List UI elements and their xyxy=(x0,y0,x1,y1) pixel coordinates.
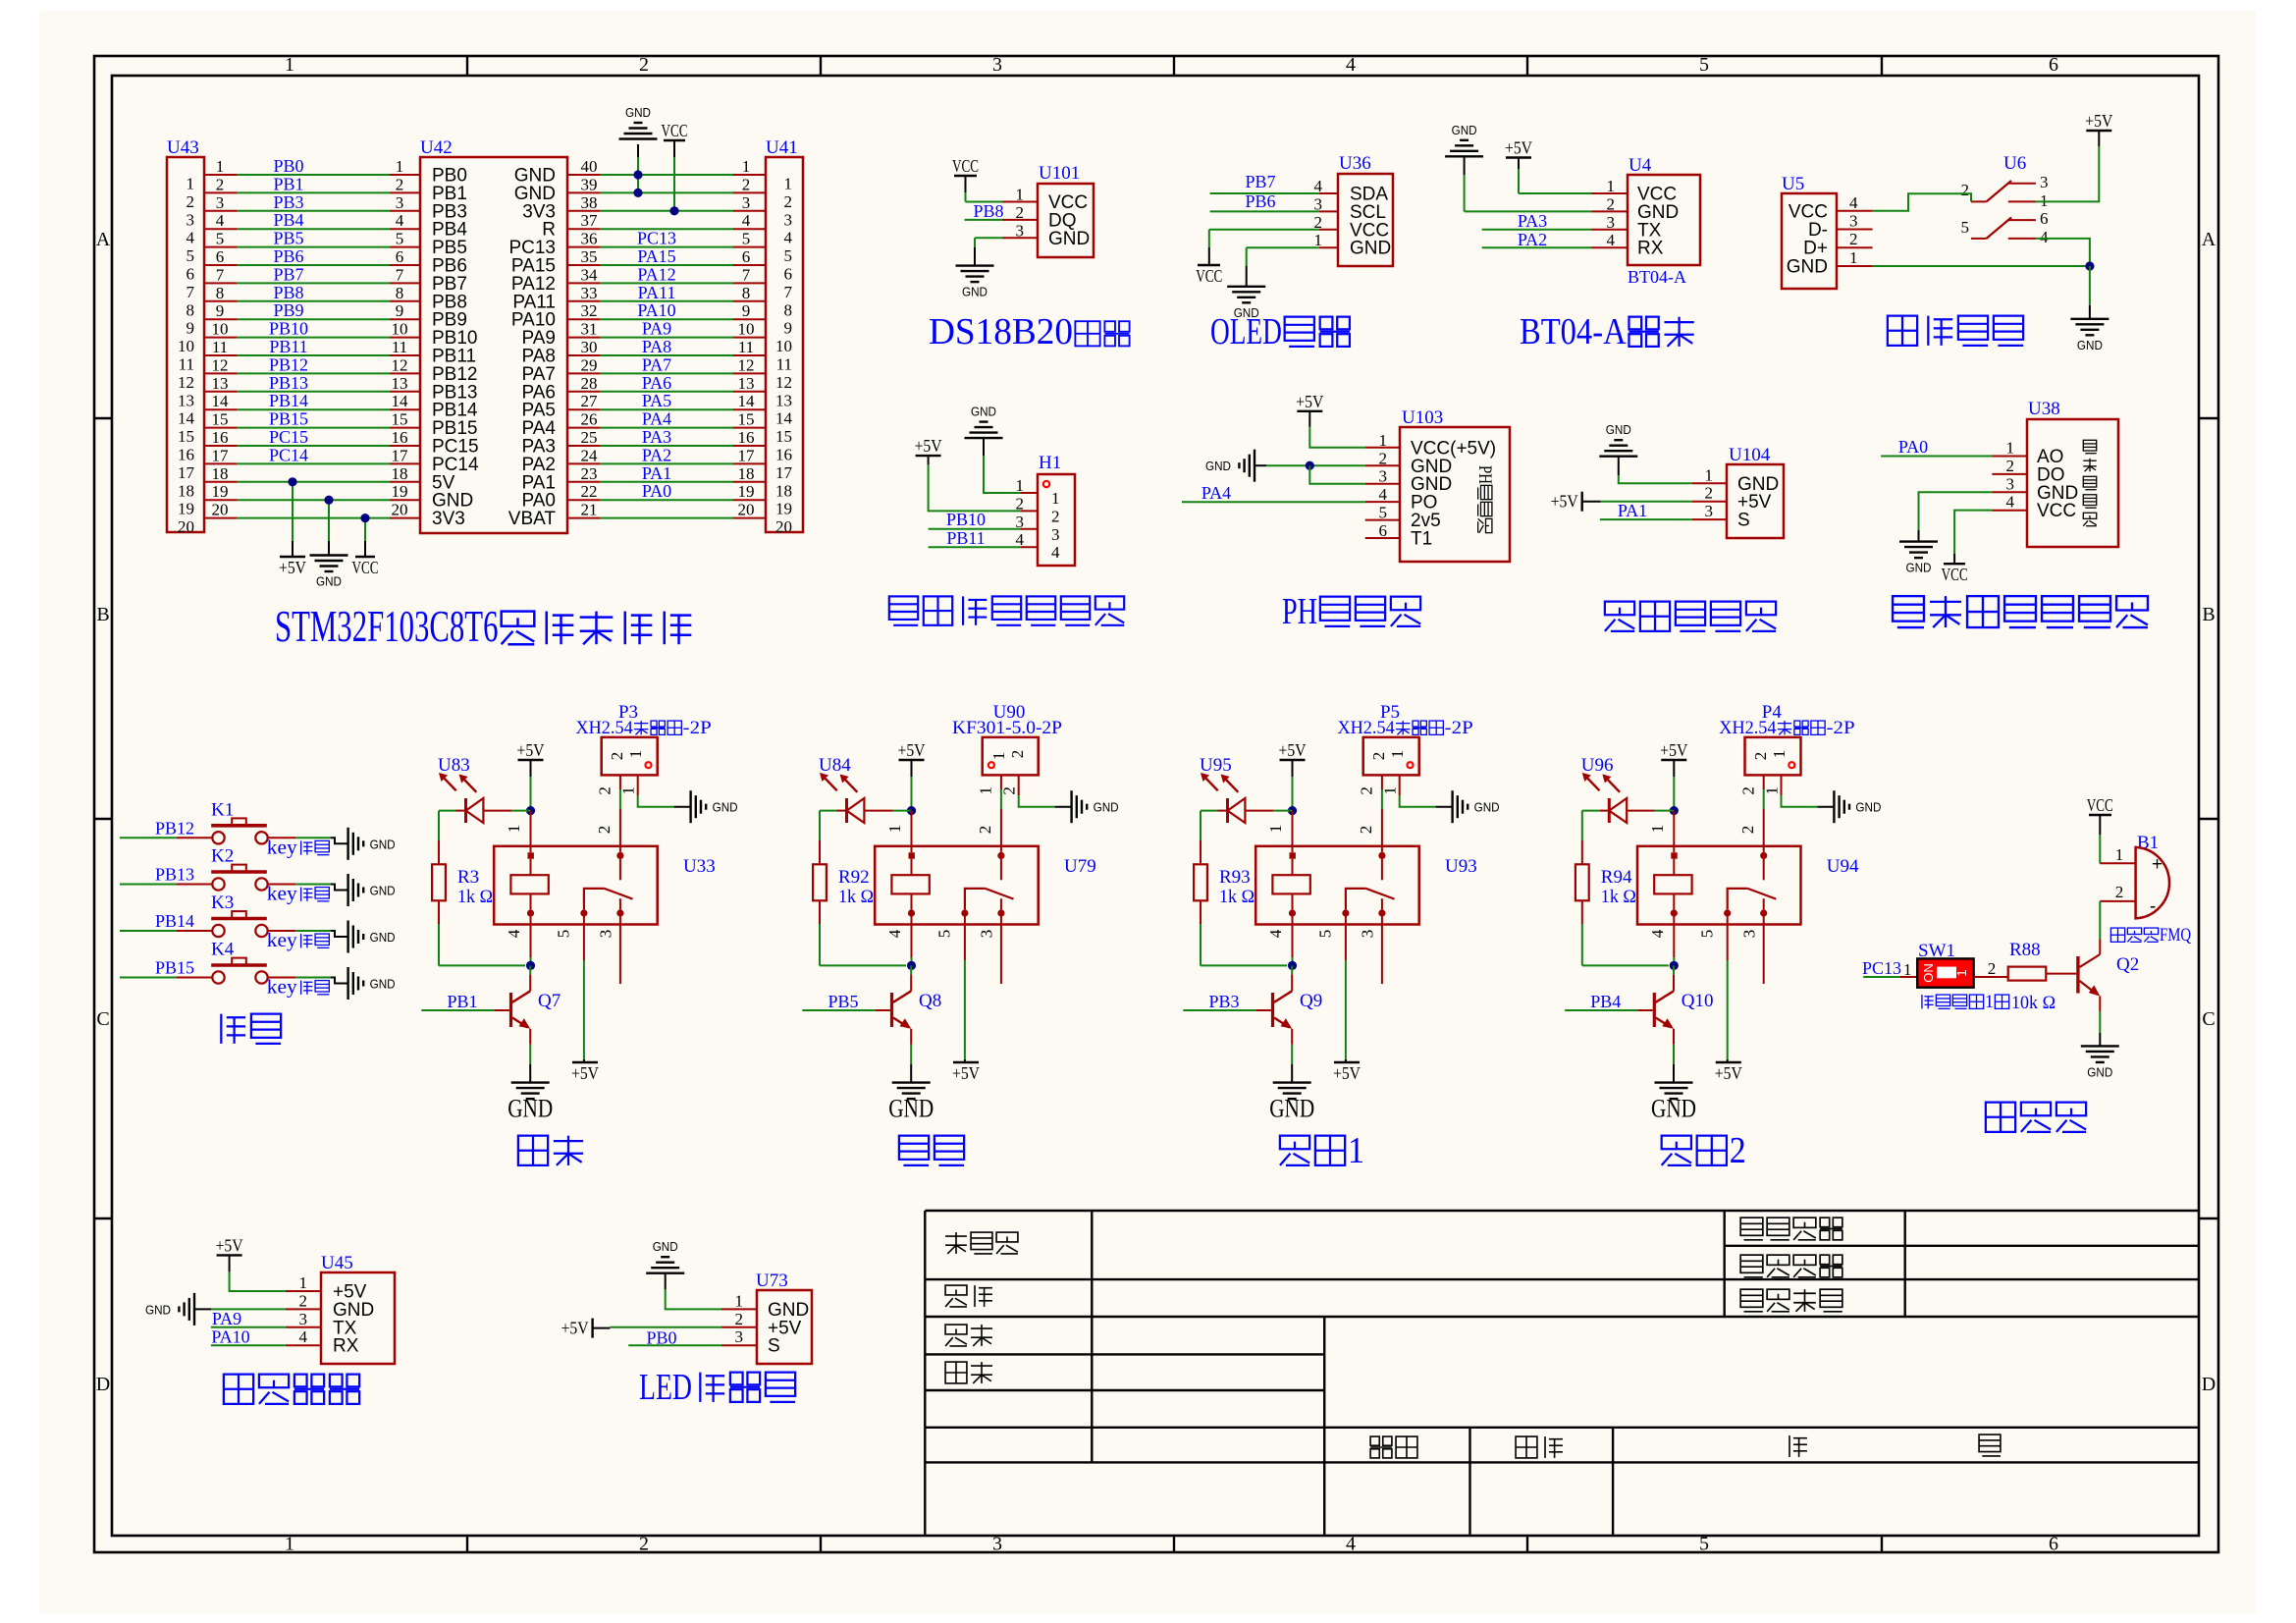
svg-text:26: 26 xyxy=(581,410,598,429)
svg-text:2: 2 xyxy=(1607,194,1616,213)
svg-text:3: 3 xyxy=(396,193,404,212)
pin U103.6 xyxy=(1365,521,1400,540)
svg-text:36: 36 xyxy=(581,230,598,248)
pin U4.2 xyxy=(1592,194,1629,213)
svg-text:16: 16 xyxy=(392,428,408,447)
svg-text:A: A xyxy=(96,229,111,250)
svg-text:U103: U103 xyxy=(1402,407,1443,428)
ground (top of U42, pins 40/39) xyxy=(619,105,658,192)
svg-text:B: B xyxy=(2202,604,2215,625)
svg-text:5: 5 xyxy=(935,930,954,939)
node PA9 xyxy=(212,1309,241,1328)
wire SW1 to R88 xyxy=(1974,959,2008,978)
svg-text:U95: U95 xyxy=(1200,755,1232,776)
wire U43.6 to U42.6 xyxy=(204,247,420,266)
svg-text:+5V: +5V xyxy=(1279,740,1307,760)
svg-text:11: 11 xyxy=(179,355,194,374)
IC U101 (DS18B20) xyxy=(1038,184,1094,257)
wire U42.22 to U41.19 xyxy=(567,482,766,501)
junction U42 pin38 xyxy=(669,206,678,215)
junction U79 pin1 node xyxy=(907,806,916,815)
IC U101 designator xyxy=(1039,163,1080,184)
svg-text:PA0: PA0 xyxy=(642,481,671,501)
svg-text:1k Ω: 1k Ω xyxy=(1219,887,1255,907)
svg-text:11: 11 xyxy=(776,355,792,374)
wire K1 to ground xyxy=(268,838,348,843)
pin U45.3 xyxy=(286,1310,321,1328)
svg-text:14: 14 xyxy=(738,392,756,410)
wire U42.26 to U41.15 xyxy=(567,410,766,429)
wire PB5 to base xyxy=(802,1009,890,1011)
svg-text:PB14: PB14 xyxy=(155,911,194,931)
pin U103.5 xyxy=(1365,504,1400,522)
label key of K3 xyxy=(267,930,330,951)
pin U103.2 xyxy=(1365,449,1400,467)
title OLED screen xyxy=(1210,311,1350,352)
node PB8 (left) xyxy=(273,283,303,302)
svg-text:PA3: PA3 xyxy=(1518,211,1547,231)
wire PA3 to U4.3 xyxy=(1482,229,1592,231)
wire PB7 to U36.4 xyxy=(1210,192,1319,194)
svg-text:GND: GND xyxy=(2077,338,2103,352)
pin U104.1 xyxy=(1692,465,1727,484)
pin label 5 (relay NO) xyxy=(555,930,573,939)
svg-text:-2P: -2P xyxy=(1445,718,1473,738)
svg-text:7: 7 xyxy=(216,265,225,284)
svg-text:2: 2 xyxy=(1739,786,1758,795)
svg-text:1: 1 xyxy=(1849,248,1858,267)
ground (K4) xyxy=(348,967,396,1000)
wire LED to resistor xyxy=(819,811,821,865)
svg-text:GND: GND xyxy=(1787,256,1828,277)
svg-text:U43: U43 xyxy=(167,137,199,158)
pushbutton K4 xyxy=(211,940,268,984)
svg-text:key: key xyxy=(267,884,297,905)
pushbutton K3 xyxy=(211,893,268,937)
svg-text:1: 1 xyxy=(396,157,404,176)
wire U90 left pin to relay 2 xyxy=(1000,775,1002,851)
svg-text:GND: GND xyxy=(971,405,996,419)
pin U5.4 xyxy=(1837,193,1873,212)
connector U43 designator xyxy=(167,137,199,158)
svg-text:1k Ω: 1k Ω xyxy=(838,887,874,907)
wire U5.1 to gnd junction xyxy=(1873,265,2090,267)
svg-text:PA4: PA4 xyxy=(642,409,671,429)
power +5V (top of U94) xyxy=(1660,740,1687,777)
svg-text:19: 19 xyxy=(392,482,408,501)
ground (K3) xyxy=(348,921,396,953)
pin label 1 (P5 right) xyxy=(1381,786,1400,795)
wire +5V to U45.1 xyxy=(230,1271,286,1291)
wire U42.31 to U41.10 xyxy=(567,320,766,339)
connector U90 xyxy=(983,702,1039,775)
svg-text:1: 1 xyxy=(1607,177,1616,195)
svg-text:A: A xyxy=(2202,229,2216,250)
wire U43.20 to U42.20 xyxy=(204,501,420,519)
svg-text:U79: U79 xyxy=(1064,856,1096,877)
svg-text:2: 2 xyxy=(735,1310,744,1328)
wire U43.7 to U42.7 xyxy=(204,265,420,284)
pin label 1 (relay coil top) xyxy=(1648,825,1667,834)
svg-text:4: 4 xyxy=(1648,929,1667,938)
svg-text:PC15: PC15 xyxy=(269,427,308,447)
svg-text:VCC: VCC xyxy=(1196,266,1222,286)
svg-text:5: 5 xyxy=(1961,218,1970,237)
svg-text:GND: GND xyxy=(370,930,396,945)
svg-text:16: 16 xyxy=(775,446,792,464)
wire U43.8 to U42.8 xyxy=(204,284,420,302)
svg-text:12: 12 xyxy=(738,355,755,374)
pin label 2 (P4 left) xyxy=(1739,786,1758,795)
IC U38 (photoresistor sensor) xyxy=(2027,419,2118,547)
junction U103 gnd xyxy=(1306,461,1314,470)
svg-text:3: 3 xyxy=(1739,930,1758,939)
wire relay pin5 to +5V xyxy=(964,916,966,1062)
svg-text:8: 8 xyxy=(396,284,404,302)
svg-text:Q10: Q10 xyxy=(1682,991,1714,1011)
svg-text:GND: GND xyxy=(1452,123,1477,137)
svg-text:15: 15 xyxy=(212,410,229,429)
junction U42 pin40 xyxy=(633,170,642,179)
svg-text:5: 5 xyxy=(1699,54,1709,76)
svg-text:3: 3 xyxy=(1705,502,1714,520)
svg-text:XH2.54: XH2.54 xyxy=(1719,718,1777,738)
label key of K1 xyxy=(267,837,330,858)
relay U94 xyxy=(1637,846,1859,925)
svg-text:9: 9 xyxy=(784,319,793,338)
svg-text:U33: U33 xyxy=(683,856,716,877)
svg-text:RX: RX xyxy=(1637,239,1664,259)
wire U38.4 to VCC xyxy=(1954,511,1992,565)
svg-text:+5V: +5V xyxy=(1296,392,1323,411)
wire LED anode xyxy=(820,810,847,812)
IC U104 designator xyxy=(1729,445,1771,465)
svg-text:key: key xyxy=(267,837,297,858)
svg-text:+5V: +5V xyxy=(2085,111,2112,131)
svg-text:U38: U38 xyxy=(2028,399,2060,419)
svg-text:3: 3 xyxy=(187,210,195,229)
wire U43.9 to U42.9 xyxy=(204,301,420,320)
svg-text:GND: GND xyxy=(370,977,396,992)
svg-text:11: 11 xyxy=(392,338,407,356)
svg-text:15: 15 xyxy=(178,427,194,446)
pin U38.2 xyxy=(1992,457,2027,475)
node PC14 (left) xyxy=(269,445,308,464)
svg-text:2: 2 xyxy=(1369,752,1388,761)
svg-text:B: B xyxy=(96,604,109,625)
pin U36.2 xyxy=(1314,213,1339,232)
svg-text:8: 8 xyxy=(216,284,225,302)
wire resistor to node4 xyxy=(1201,900,1287,965)
svg-text:13: 13 xyxy=(392,374,408,393)
IC U73 designator xyxy=(756,1271,788,1291)
svg-text:K1: K1 xyxy=(211,799,234,820)
node PB6 xyxy=(1245,191,1275,211)
svg-text:4: 4 xyxy=(1346,54,1356,76)
svg-text:PB0: PB0 xyxy=(273,156,303,176)
wire PA2 to U4.4 xyxy=(1482,246,1592,248)
wire +5V down xyxy=(530,777,532,811)
wire LED anode xyxy=(439,810,466,812)
power +5V (top of U93) xyxy=(1279,740,1307,777)
title BT04-A bluetooth xyxy=(1520,311,1694,352)
svg-text:29: 29 xyxy=(581,355,598,374)
svg-text:2: 2 xyxy=(1730,1130,1746,1171)
svg-text:1: 1 xyxy=(1770,750,1789,759)
svg-text:RX: RX xyxy=(333,1336,359,1357)
pin label 2 (relay common) xyxy=(1738,826,1757,835)
wire +5V to U6.1 xyxy=(2036,146,2099,201)
svg-text:GND: GND xyxy=(1094,800,1119,815)
svg-text:3: 3 xyxy=(1607,213,1616,232)
wire gnd to U45.2 xyxy=(211,1308,286,1310)
svg-text:STM32F103C8T6: STM32F103C8T6 xyxy=(275,601,499,651)
node PA9 (right) xyxy=(642,319,671,339)
node PA12 (right) xyxy=(637,264,675,284)
svg-text:34: 34 xyxy=(581,265,599,284)
pin relay 3 stub xyxy=(1000,916,1002,984)
wire +5V to U104.2 xyxy=(1601,501,1692,503)
svg-text:PB15: PB15 xyxy=(155,958,194,978)
svg-text:3: 3 xyxy=(216,193,225,212)
svg-text:1: 1 xyxy=(977,786,995,795)
svg-text:U45: U45 xyxy=(321,1253,353,1273)
svg-text:8: 8 xyxy=(784,300,793,319)
svg-text:GND: GND xyxy=(962,285,988,299)
svg-text:PC13: PC13 xyxy=(637,229,676,248)
svg-text:1: 1 xyxy=(1379,431,1388,450)
ground (U4 pin2, antenna style) xyxy=(1445,123,1483,175)
svg-text:VCC: VCC xyxy=(662,121,688,140)
svg-text:XH2.54: XH2.54 xyxy=(1338,718,1396,738)
wire U43.13 to U42.13 xyxy=(204,374,420,393)
svg-text:17: 17 xyxy=(775,463,793,482)
wire PB6 to U36.3 xyxy=(1210,210,1319,212)
wire U42.35 to U41.6 xyxy=(567,247,766,266)
pin relay 3 stub xyxy=(1763,916,1765,984)
title pump2 xyxy=(1662,1130,1746,1171)
IC U45 designator xyxy=(321,1253,353,1273)
title DS18B20 temperature xyxy=(929,311,1130,352)
node PB11 xyxy=(946,528,985,548)
svg-text:PB13: PB13 xyxy=(155,865,194,885)
switch U6 designator xyxy=(2003,153,2026,174)
svg-text:PA5: PA5 xyxy=(642,391,671,410)
ground (power module) xyxy=(2070,319,2109,352)
svg-text:1: 1 xyxy=(1648,825,1667,834)
ground (U103 pin2, sideways) xyxy=(1205,450,1266,482)
svg-text:4: 4 xyxy=(1379,485,1388,504)
wire +5V down xyxy=(1292,777,1294,811)
svg-text:PA12: PA12 xyxy=(637,264,675,284)
wire PB11 to H1.4 xyxy=(929,546,1021,548)
svg-text:2: 2 xyxy=(608,752,626,761)
wire PB1 to base xyxy=(421,1009,509,1011)
node PB13 (left) xyxy=(269,373,308,393)
svg-text:1: 1 xyxy=(187,175,195,193)
wire gnd to U4.2 xyxy=(1465,175,1592,211)
wire U42.25 to U41.16 xyxy=(567,428,766,447)
wire U43.12 to U42.12 xyxy=(204,355,420,374)
svg-text:3: 3 xyxy=(1051,525,1060,544)
title block label page-of xyxy=(1789,1435,1807,1457)
resistor R88 10k xyxy=(2008,940,2056,1013)
svg-text:2: 2 xyxy=(299,1291,308,1310)
node PB12 xyxy=(155,818,194,838)
svg-text:2: 2 xyxy=(742,175,751,193)
svg-text:+: + xyxy=(2152,854,2163,875)
DIP switch SW1 xyxy=(1917,958,1973,987)
wire relay pin4 to node xyxy=(1673,916,1675,965)
wire relay pin4 to node xyxy=(530,916,532,965)
pin U101.3 xyxy=(1002,221,1038,240)
pin relay 3 stub xyxy=(619,916,621,984)
svg-text:5: 5 xyxy=(1699,1534,1709,1555)
wire +5V to U103.1 xyxy=(1309,427,1364,448)
svg-text:9: 9 xyxy=(742,301,751,320)
node PB15 (left) xyxy=(269,409,308,429)
LED U95 xyxy=(1200,755,1245,823)
svg-text:2: 2 xyxy=(1357,826,1375,835)
svg-text:U5: U5 xyxy=(1782,174,1804,194)
connector U41 designator xyxy=(766,137,798,158)
junction base node xyxy=(526,961,535,970)
svg-text:U42: U42 xyxy=(420,137,453,158)
svg-text:30: 30 xyxy=(581,338,598,356)
svg-text:Q8: Q8 xyxy=(919,991,941,1011)
junction base node xyxy=(907,961,916,970)
title block table xyxy=(925,1211,2199,1536)
wire emitter to ground xyxy=(1291,1029,1293,1083)
pin U36.1 xyxy=(1314,231,1339,249)
LED U83 xyxy=(438,755,483,823)
svg-text:17: 17 xyxy=(738,446,756,464)
svg-text:S: S xyxy=(768,1336,780,1357)
wire emitter to ground xyxy=(910,1029,912,1083)
svg-text:Q9: Q9 xyxy=(1300,991,1322,1011)
pin U4.3 xyxy=(1592,213,1629,232)
svg-text:10: 10 xyxy=(178,337,194,355)
power +5V (relay pin5) xyxy=(1715,1062,1742,1083)
svg-text:4: 4 xyxy=(742,211,751,230)
wire gnd to H1.1 xyxy=(984,456,1021,493)
node PC13 (buzzer) xyxy=(1862,958,1901,978)
svg-text:PB11: PB11 xyxy=(946,528,985,548)
wire U90 right pin to ground xyxy=(1019,775,1072,806)
svg-text:3: 3 xyxy=(1359,930,1377,939)
svg-text:+5V: +5V xyxy=(517,740,545,760)
svg-text:6: 6 xyxy=(2049,1534,2058,1555)
pin U73.3 xyxy=(721,1327,757,1346)
svg-text:3: 3 xyxy=(299,1310,308,1328)
title keys xyxy=(221,1014,281,1044)
svg-text:K2: K2 xyxy=(211,846,234,867)
IC U42 (STM32F103C8T6 module body) xyxy=(420,157,567,533)
svg-text:2: 2 xyxy=(1379,449,1388,467)
svg-text:VCC: VCC xyxy=(2037,501,2076,521)
svg-text:22: 22 xyxy=(581,482,598,501)
svg-text:5: 5 xyxy=(216,230,225,248)
svg-text:15: 15 xyxy=(392,410,408,429)
svg-text:+5V: +5V xyxy=(571,1063,599,1083)
svg-text:14: 14 xyxy=(392,392,409,410)
svg-text:2: 2 xyxy=(1705,484,1714,503)
svg-text:PA7: PA7 xyxy=(642,354,671,374)
pin U38.3 xyxy=(1992,474,2027,493)
wire collector xyxy=(1673,965,1675,991)
pin label 2 (U90 right) xyxy=(1000,786,1019,795)
svg-text:2: 2 xyxy=(1358,786,1376,795)
svg-text:23: 23 xyxy=(581,464,598,483)
wire +5V down xyxy=(911,777,913,811)
wire LED to resistor xyxy=(1581,811,1583,865)
svg-text:4: 4 xyxy=(885,929,904,938)
node PB0 (LED) xyxy=(646,1328,676,1348)
node PA11 (right) xyxy=(638,283,676,302)
wire PA0 to U38.1 xyxy=(1881,456,1992,458)
svg-text:PB5: PB5 xyxy=(273,229,303,248)
svg-text:6: 6 xyxy=(784,265,793,284)
wire PB4 to base xyxy=(1565,1009,1653,1011)
wire resistor to node4 xyxy=(820,900,906,965)
wire U43.5 to U42.5 xyxy=(204,230,420,248)
svg-text:1: 1 xyxy=(989,752,1008,761)
ground (Q10 emitter) xyxy=(1651,1083,1696,1123)
wire P3 right pin to ground xyxy=(638,775,691,806)
svg-text:PA2: PA2 xyxy=(642,445,671,464)
pin relay 3 stub xyxy=(1381,916,1383,984)
wire PC13 to SW1 xyxy=(1863,960,1917,979)
title buzzer xyxy=(1986,1103,2086,1132)
svg-text:PB4: PB4 xyxy=(273,210,303,230)
pin label 2 (relay common) xyxy=(976,826,994,835)
svg-text:U83: U83 xyxy=(438,755,470,776)
resistor R3 1k xyxy=(432,864,493,907)
svg-text:14: 14 xyxy=(212,392,230,410)
svg-text:6: 6 xyxy=(2049,54,2058,76)
wire U42.34 to U41.7 xyxy=(567,265,766,284)
svg-text:T1: T1 xyxy=(1411,529,1432,550)
svg-text:+5V: +5V xyxy=(279,558,306,577)
svg-text:PB5: PB5 xyxy=(828,992,858,1011)
svg-text:U36: U36 xyxy=(1339,153,1371,174)
wire PB3 to base xyxy=(1183,1009,1271,1011)
svg-text:-: - xyxy=(2150,896,2156,917)
svg-text:VCC: VCC xyxy=(2087,795,2113,815)
relay U93 xyxy=(1255,846,1477,925)
pin U4.1 xyxy=(1592,177,1629,195)
svg-text:4: 4 xyxy=(2040,228,2049,246)
wire relay pin1 xyxy=(1673,811,1675,853)
pin label 1 (U90 left) xyxy=(977,786,995,795)
svg-text:VCC: VCC xyxy=(1942,565,1968,584)
ground (H1 pin1, antenna style) xyxy=(965,405,1003,456)
pin H1.4 xyxy=(1016,530,1039,549)
svg-text:3: 3 xyxy=(1379,467,1388,486)
power +5V (U103 pin1) xyxy=(1296,392,1323,427)
wire U42.38 to U41.3 xyxy=(567,193,766,212)
power +5V (relay pin5) xyxy=(571,1062,599,1083)
svg-text:13: 13 xyxy=(178,391,194,409)
svg-text:7: 7 xyxy=(187,283,195,301)
svg-text:1: 1 xyxy=(735,1291,744,1310)
wire U42.27 to U41.14 xyxy=(567,392,766,410)
svg-text:8: 8 xyxy=(187,300,195,319)
power +5V (top of U79) xyxy=(898,740,926,777)
wire gnd to U104.1 xyxy=(1619,475,1692,483)
svg-text:18: 18 xyxy=(392,464,408,483)
svg-text:40: 40 xyxy=(581,157,598,176)
